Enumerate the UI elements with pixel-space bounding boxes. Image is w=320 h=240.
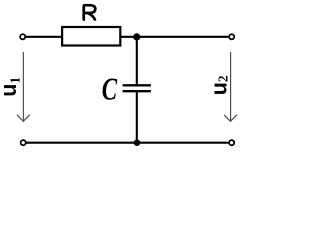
wire: capacitor C bottom plate down to node B [136,92,138,144]
arrow: input voltage u1 (pointing down) [17,52,30,121]
svg-text:C: C [102,71,118,106]
node A (junction dot at R / C / output) [133,33,140,40]
wire: resistor R to node A [120,36,137,38]
svg-text:u2: u2 [206,75,231,95]
capacitor C : top plate [123,84,151,86]
terminal: input top (open circle) [20,34,25,39]
resistor R (rectangle body) [62,27,120,46]
terminal: output bottom (open circle) [229,140,234,145]
wire: bottom rail between bottom terminals [26,142,228,144]
capacitor C : bottom plate [123,90,151,92]
wire: input top terminal to resistor R [26,36,63,38]
arrow: output voltage u2 (pointing down) [224,52,237,121]
svg-text:u1: u1 [0,77,22,97]
terminal: input bottom (open circle) [21,140,26,145]
wire: node A to output top terminal [137,36,229,38]
node B (junction dot on bottom rail) [134,139,141,146]
label R (resistor reference) [84,5,96,19]
terminal: output top (open circle) [229,34,234,39]
wire: node A down to capacitor C top plate [136,37,138,85]
